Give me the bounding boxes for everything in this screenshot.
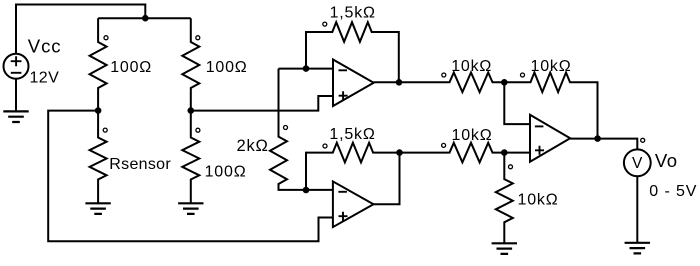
svg-text:V: V xyxy=(632,155,643,172)
resistor R6 1.5k feedback op2 xyxy=(306,143,400,190)
terminal circle 1.5k bottom xyxy=(323,144,327,148)
op-amp U2 plus symbol xyxy=(339,212,348,221)
svg-text:10kΩ: 10kΩ xyxy=(518,191,559,208)
op-amp U1 plus symbol xyxy=(339,91,348,100)
ground under bottom 100 ohm xyxy=(178,203,203,214)
svg-text:10kΩ: 10kΩ xyxy=(531,58,572,75)
svg-text:100Ω: 100Ω xyxy=(205,164,247,181)
terminal circle 1.5k top xyxy=(323,22,327,26)
resistor R4 2k ohm with leads xyxy=(270,69,333,190)
svg-text:12V: 12V xyxy=(30,70,60,87)
wire op3 minus step xyxy=(504,82,530,124)
terminal circle 2k xyxy=(284,126,288,130)
terminal circle 10k mid xyxy=(442,143,446,147)
terminal circle topright resistor xyxy=(196,36,200,40)
source Vcc circle xyxy=(4,54,29,79)
source Vcc minus symbol xyxy=(11,72,22,74)
op-amp U3 triangle xyxy=(530,115,570,162)
wire bridge left node to bottom rail to op2 plus xyxy=(48,111,333,242)
svg-text:0 - 5V: 0 - 5V xyxy=(649,183,697,200)
resistor R7 10k op1-out to minus node xyxy=(399,73,504,93)
terminal circle voltmeter xyxy=(641,138,645,142)
terminal circle bottom 100 ohm xyxy=(196,128,200,132)
wire top rail from Vcc xyxy=(16,5,145,55)
terminal circle topleft resistor xyxy=(104,36,108,40)
wire op3 output to voltmeter xyxy=(570,139,637,150)
wire bridge right node to op1 plus xyxy=(191,96,333,111)
terminal circle Rsensor xyxy=(103,128,107,132)
resistor R10 10k to ground xyxy=(496,153,513,244)
resistor R-bottom 100 ohm xyxy=(182,111,199,204)
op-amp U1 triangle xyxy=(333,60,374,107)
resistor R-topleft 100 ohm xyxy=(90,18,107,110)
node dot bridge left xyxy=(95,107,102,114)
wire op1 output xyxy=(374,81,399,83)
ground under Vcc xyxy=(3,111,28,122)
resistor R5 1.5k feedback op1 xyxy=(306,22,399,82)
svg-text:1,5kΩ: 1,5kΩ xyxy=(330,5,376,22)
resistor R-topright 100 ohm xyxy=(182,18,199,110)
node dot op2 minus xyxy=(303,187,310,194)
svg-text:100Ω: 100Ω xyxy=(206,59,248,76)
op-amp U3 plus symbol xyxy=(535,146,544,155)
node dot bridge right xyxy=(188,107,195,114)
resistor R8 10k feedback to output xyxy=(504,73,597,139)
svg-text:Rsensor: Rsensor xyxy=(109,156,171,173)
node dot diff plus xyxy=(501,149,508,156)
op-amp U1 minus symbol xyxy=(339,69,348,71)
ground under Rsensor xyxy=(85,203,110,214)
op-amp U2 minus symbol xyxy=(338,191,347,193)
source Vcc plus symbol xyxy=(11,56,22,66)
svg-text:100Ω: 100Ω xyxy=(110,59,152,76)
ground under voltmeter xyxy=(625,243,650,254)
svg-text:Vo: Vo xyxy=(655,150,678,171)
svg-text:Vcc: Vcc xyxy=(28,36,62,57)
op-amp U3 minus symbol xyxy=(535,125,544,127)
resistor Rsensor xyxy=(90,111,107,204)
voltmeter circle xyxy=(624,149,651,176)
node dot output xyxy=(594,135,601,142)
op-amp U2 triangle xyxy=(333,181,374,227)
resistor R9 10k op2-out to plus node xyxy=(400,143,531,163)
node dot op2 output xyxy=(396,149,403,156)
svg-text:1,5kΩ: 1,5kΩ xyxy=(329,126,375,143)
wire voltmeter to ground xyxy=(636,176,638,243)
node dot op1 minus xyxy=(303,65,310,72)
terminal circle 10k top left xyxy=(442,73,446,77)
ground under R10 10k xyxy=(492,243,517,254)
wire op2 output up to feedback node xyxy=(374,153,400,205)
wire bridge top rail xyxy=(98,17,191,19)
svg-text:10kΩ: 10kΩ xyxy=(451,58,492,75)
terminal circle 10k top right xyxy=(521,73,525,77)
node dot diff minus xyxy=(501,79,508,86)
node dot op1 output xyxy=(396,79,403,86)
wire Vcc source to ground xyxy=(15,79,17,112)
svg-text:10kΩ: 10kΩ xyxy=(452,127,493,144)
wire op1 minus input xyxy=(279,68,334,70)
terminal circle 10k vertical xyxy=(509,165,513,169)
svg-text:2kΩ: 2kΩ xyxy=(237,137,269,155)
node dot top rail xyxy=(142,15,149,22)
